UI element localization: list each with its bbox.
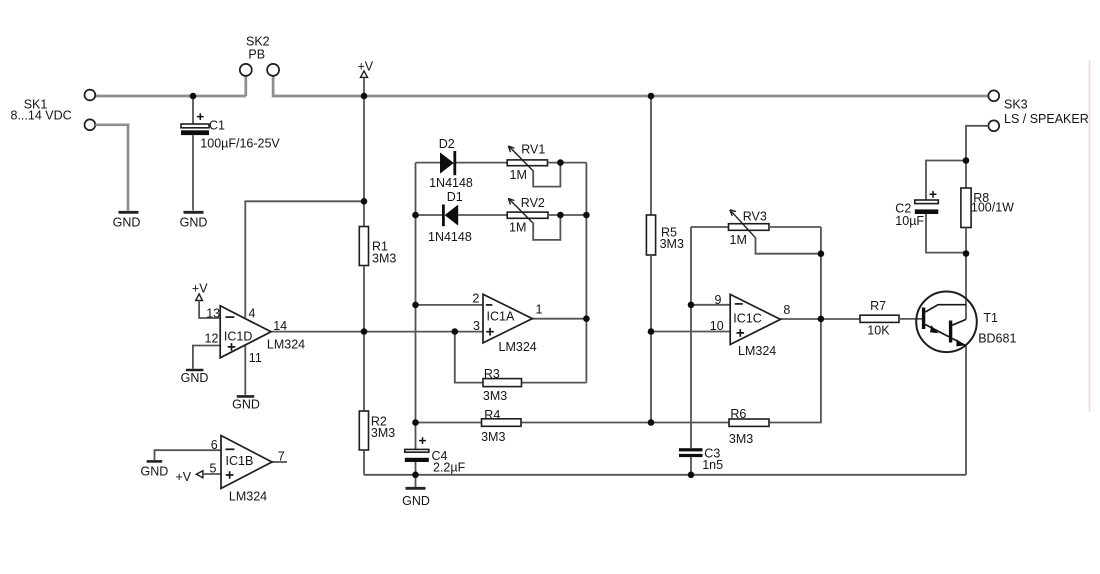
svg-text:SK3: SK3 (1004, 98, 1028, 112)
resistor R4 (481, 408, 521, 444)
potentiometer RV2 (507, 196, 548, 235)
svg-text:11: 11 (249, 351, 262, 365)
wire R5 vertical from rail (650, 96, 652, 215)
wire T1 collector lead (965, 254, 967, 320)
wire C2 branch top (926, 161, 966, 200)
node RV3 wiper junction (818, 250, 825, 257)
svg-text:9: 9 (715, 293, 722, 307)
node pin2 junction (412, 302, 419, 309)
wire RV1 wiper hook (533, 163, 560, 187)
svg-text:RV2: RV2 (521, 196, 545, 210)
svg-text:D1: D1 (447, 190, 463, 204)
svg-text:GND: GND (402, 494, 430, 508)
svg-text:4: 4 (249, 307, 256, 321)
svg-text:+V: +V (192, 282, 208, 296)
svg-text:R3: R3 (484, 367, 500, 381)
wire SK1 ground lead (95, 125, 128, 211)
node C2/R8 bottom junction (963, 250, 970, 257)
wire IC1D pin 4 supply branch (245, 201, 364, 317)
svg-text:3: 3 (473, 319, 480, 333)
node C3 ground junction (688, 472, 695, 479)
node pin9 junction (688, 302, 695, 309)
wire R3 feedback hook (455, 332, 587, 383)
svg-text:T1: T1 (983, 311, 998, 325)
svg-text:SK2: SK2 (246, 34, 270, 48)
ground GND (C4) (402, 488, 430, 508)
wire RV2 to right vertical (548, 214, 586, 216)
svg-text:1N4148: 1N4148 (429, 176, 473, 190)
wire RV3 left lead (691, 226, 729, 228)
svg-text:C1: C1 (209, 119, 225, 133)
svg-text:100/1W: 100/1W (971, 200, 1014, 214)
node rail/C1 junction (190, 93, 197, 100)
wire IC1D output to IC1A pin 3 (271, 331, 483, 333)
connector SK2 (240, 34, 279, 76)
svg-text:2.2µF: 2.2µF (433, 461, 466, 475)
svg-text:1M: 1M (509, 220, 526, 234)
wire RV3 right lead (769, 226, 821, 228)
resistor R3 (483, 367, 522, 403)
svg-text:GND: GND (181, 371, 209, 385)
svg-text:6: 6 (211, 438, 218, 452)
node pin10 junction (648, 328, 655, 335)
potentiometer RV3 (729, 210, 770, 247)
wire +V rail left segment (96, 76, 246, 97)
ground GND (IC1D pin 11) (232, 396, 260, 411)
svg-text:10: 10 (710, 319, 724, 333)
wire IC1B pin 5 (203, 473, 221, 475)
wire C4 to ground (415, 475, 417, 487)
node RV2 wiper junction (557, 212, 564, 219)
ground GND (IC1D pin 12) (181, 370, 209, 385)
node R3 hook junction (452, 328, 459, 335)
wire R2 to ground rail (363, 450, 365, 475)
svg-text:GND: GND (113, 216, 141, 230)
wire D1 branch (416, 214, 508, 216)
svg-text:3M3: 3M3 (371, 426, 395, 440)
wire IC1A pin 2 (416, 304, 484, 306)
resistor R6 (729, 407, 769, 446)
wire right vertical (RV1 corner to R3) (585, 163, 587, 383)
wire IC1A output pin 1 (532, 318, 586, 320)
wire node C vertical (RV3 left / pin 9 / C3) (690, 227, 692, 448)
diode D1 (428, 190, 472, 244)
svg-text:1: 1 (536, 302, 543, 316)
node pin1 output junction (583, 315, 590, 322)
potentiometer RV1 (507, 143, 547, 183)
wire node B vertical (D2/D1/pin2/R4/C4) (415, 163, 417, 450)
power +V (top) (358, 59, 374, 96)
svg-text:RV3: RV3 (743, 210, 767, 224)
wire IC1B pin 6 (155, 450, 222, 460)
svg-text:R7: R7 (870, 299, 886, 313)
svg-text:LM324: LM324 (267, 338, 305, 352)
resistor R2 (359, 411, 395, 450)
svg-text:10K: 10K (867, 324, 890, 338)
wire IC1B pin 7 output stub (272, 461, 287, 463)
resistor R8 (961, 188, 1014, 228)
op-amp IC1D (205, 306, 306, 365)
wire IC1C output pin 8 (780, 318, 860, 320)
svg-text:RV1: RV1 (521, 143, 545, 157)
svg-text:IC1D: IC1D (224, 329, 252, 343)
wire RV1 to right vertical (548, 162, 587, 164)
capacitor C1 (181, 96, 280, 211)
wire RV2 wiper hook (533, 215, 560, 240)
connector SK1 (11, 90, 96, 131)
wire D2 branch (416, 162, 508, 164)
wire IC1D pin 12 (193, 346, 220, 369)
svg-text:IC1A: IC1A (487, 309, 515, 323)
node pin8 junction (818, 316, 825, 323)
svg-text:3M3: 3M3 (483, 389, 507, 403)
wire RV3 wiper hook (756, 237, 821, 254)
op-amp IC1B (210, 436, 285, 504)
svg-text:14: 14 (273, 319, 287, 333)
svg-text:GND: GND (232, 397, 260, 411)
svg-text:3M3: 3M3 (372, 251, 396, 265)
wire R8 top lead (965, 161, 967, 189)
svg-text:2: 2 (472, 291, 479, 305)
power +V (IC1D) (192, 282, 208, 301)
ground GND (C1) (180, 212, 208, 229)
wire IC1D pin 13 (199, 301, 220, 319)
wire R5 to pin10 and R4 node (650, 255, 652, 423)
node R4 left junction (412, 419, 419, 426)
wire T1 emitter lead (965, 346, 967, 475)
wire right feedback vertical (769, 227, 821, 423)
svg-text:BD681: BD681 (978, 331, 1016, 345)
node pin4 branch junction (361, 198, 368, 205)
wire IC1D pin 11 (244, 345, 246, 395)
svg-text:GND: GND (141, 465, 169, 479)
diode D2 (429, 137, 473, 190)
op-amp IC1A (472, 291, 542, 354)
resistor R7 (860, 299, 899, 338)
wire R4 line (416, 422, 730, 424)
svg-text:LS / SPEAKER: LS / SPEAKER (1004, 112, 1089, 126)
svg-text:12: 12 (205, 332, 219, 346)
resistor R1 (359, 227, 396, 266)
svg-text:10µF: 10µF (895, 214, 924, 228)
wire R1 to node A (363, 266, 365, 412)
svg-text:LM324: LM324 (738, 344, 776, 358)
svg-text:8: 8 (783, 303, 790, 317)
node RV1 wiper junction (557, 159, 564, 166)
svg-text:+V: +V (358, 59, 374, 73)
ground GND (SK1) (113, 212, 141, 229)
svg-text:LM324: LM324 (499, 340, 537, 354)
svg-text:1n5: 1n5 (702, 458, 723, 472)
svg-text:R4: R4 (484, 408, 500, 422)
decorative edge line (1089, 60, 1091, 412)
svg-text:13: 13 (206, 306, 220, 320)
svg-text:LM324: LM324 (229, 490, 267, 504)
transistor T1 (916, 292, 1016, 353)
wire IC1C pin 10 (651, 331, 730, 333)
svg-text:+V: +V (176, 470, 192, 484)
svg-text:R6: R6 (730, 407, 746, 421)
connector SK3 (988, 90, 1088, 131)
capacitor C3 (679, 447, 723, 475)
node rail/+V junction (361, 93, 368, 100)
svg-text:3M3: 3M3 (481, 430, 505, 444)
svg-text:PB: PB (248, 48, 265, 62)
node divider/pin3 junction (361, 328, 368, 335)
svg-text:100µF/16-25V: 100µF/16-25V (200, 137, 280, 151)
op-amp IC1C (710, 293, 791, 358)
wire IC1C pin 9 (691, 304, 730, 306)
wire C2 branch bottom (926, 214, 966, 253)
svg-text:1M: 1M (730, 233, 747, 247)
node D1 left junction (412, 212, 419, 219)
svg-text:GND: GND (180, 216, 208, 230)
svg-text:3M3: 3M3 (660, 237, 684, 251)
ground GND (IC1B pin 6) (141, 461, 169, 478)
node SK3/C2/R8 junction (963, 157, 970, 164)
node RV2 right junction (583, 212, 590, 219)
resistor R5 (646, 215, 684, 255)
node R5 bottom junction (648, 419, 655, 426)
node C4 ground junction (412, 472, 419, 479)
wire +V vertical to R1 (363, 96, 365, 227)
svg-text:8...14 VDC: 8...14 VDC (11, 109, 72, 123)
svg-text:1N4148: 1N4148 (428, 230, 472, 244)
svg-text:5: 5 (210, 462, 217, 476)
wire R8 bottom lead (965, 228, 967, 254)
node rail/R5 junction (648, 93, 655, 100)
capacitor C2 (895, 191, 938, 228)
wire +V rail right segment (273, 76, 988, 97)
svg-text:IC1B: IC1B (226, 454, 254, 468)
capacitor C4 (405, 437, 466, 475)
wire R7 to T1 base (899, 318, 923, 320)
wire SK3 lower lead (966, 126, 988, 161)
svg-text:1M: 1M (510, 168, 527, 182)
svg-text:D2: D2 (439, 137, 455, 151)
power +V (IC1B pin 5) (176, 470, 203, 484)
svg-text:3M3: 3M3 (729, 432, 753, 446)
wire ground rail bottom (364, 474, 966, 476)
svg-text:7: 7 (278, 449, 285, 463)
svg-text:IC1C: IC1C (733, 311, 761, 325)
